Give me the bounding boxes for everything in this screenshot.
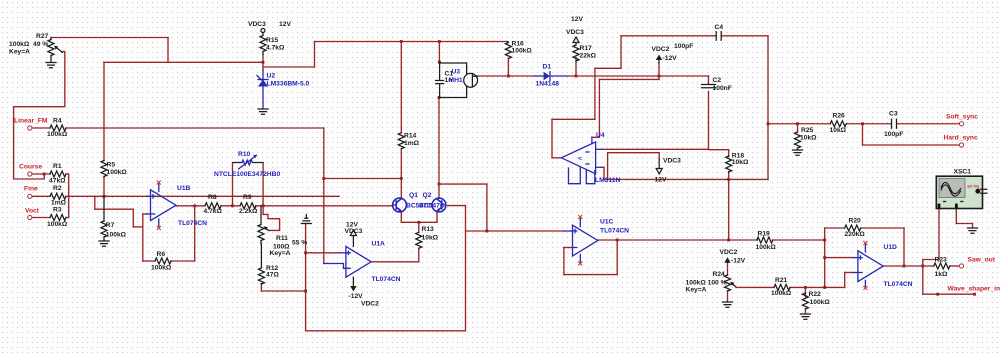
wire R25 top lead (797, 124, 799, 132)
resistor R14 (398, 133, 404, 149)
wire R13 bottom to U1A output (418, 249, 420, 262)
svg-text:U1A: U1A (372, 241, 386, 248)
junction R9/R10/R11 node (262, 204, 265, 207)
svg-text:R19: R19 (758, 230, 771, 237)
svg-text:22kΩ: 22kΩ (580, 52, 597, 59)
node Course (28, 172, 32, 176)
wire R13 top lead (418, 222, 420, 232)
junction C1/U3 top (438, 40, 441, 43)
wire VDC3 12V at U4 (658, 153, 660, 159)
wire R25 bottom to ground (797, 148, 799, 150)
svg-text:100kΩ: 100kΩ (9, 41, 30, 48)
wire Fine stub (32, 195, 50, 197)
svg-text:U3: U3 (452, 69, 461, 76)
svg-text:Key=A: Key=A (686, 287, 707, 294)
op-amp U1D (858, 251, 883, 282)
svg-text:100kΩ 100 %: 100kΩ 100 % (686, 279, 727, 286)
svg-text:Linear_FM: Linear_FM (14, 118, 48, 125)
wire to R14 bottom (324, 178, 402, 180)
wire U1B output to R8 (176, 205, 205, 207)
wire R21/R22 to U1D - (790, 286, 845, 288)
wire R24 bottom to ground (727, 291, 729, 302)
svg-text:R27: R27 (36, 33, 49, 40)
svg-text:NTCLE100E3472HB0: NTCLE100E3472HB0 (214, 171, 280, 178)
wire R18 bottom to U1C output rail (728, 172, 730, 240)
junction R12 node (304, 290, 307, 293)
wire R27 wiper to Course rail (14, 52, 65, 180)
wire R6 right to output (171, 260, 195, 262)
comparator U4 LM311N (561, 142, 595, 174)
svg-text:U1D: U1D (884, 244, 898, 251)
wire R9 output to Q1 base (256, 205, 393, 207)
svg-text:R17: R17 (580, 45, 593, 52)
svg-text:100nF: 100nF (713, 85, 732, 92)
wire 12V rail y=41.5 (315, 41, 508, 43)
wire U1C + input line (466, 230, 564, 232)
resistor R5 (101, 161, 107, 177)
power VDC3 12V at U4 (658, 159, 660, 169)
resistor R7 (103, 196, 105, 221)
wire jog to R18 top (709, 149, 729, 151)
resistor R8 (205, 203, 221, 209)
svg-text:Q1: Q1 (409, 192, 418, 199)
capacitor C1 with U3 frame (436, 63, 467, 98)
transistor Q2 (432, 198, 446, 212)
resistor R6 (155, 258, 171, 264)
svg-text:LM311N: LM311N (595, 177, 620, 184)
resistor R22 (802, 293, 808, 309)
zener U2 LM336BM-5.0 (262, 70, 264, 80)
svg-text:R14: R14 (404, 133, 417, 140)
wire R4 output long line (66, 127, 324, 129)
svg-text:C2: C2 (713, 77, 722, 84)
junction R8/R9/R10 node (231, 204, 234, 207)
wire bus to U1B + input (69, 195, 95, 197)
svg-text:1kΩ: 1kΩ (935, 271, 948, 278)
junction R5/R7 at + line (103, 195, 106, 198)
node Soft_sync (959, 122, 963, 126)
wire R23 to Saw_out (950, 265, 960, 267)
svg-text:Q2: Q2 (423, 192, 432, 199)
svg-text:10kΩ: 10kΩ (732, 159, 749, 166)
node Linear_FM (28, 126, 32, 130)
U4 balance pin staples (569, 167, 595, 184)
op-amp U1C (573, 225, 598, 256)
svg-text:TL074CN: TL074CN (372, 276, 401, 283)
power VDC2 -12V near C4 (656, 55, 662, 61)
svg-text:U1C: U1C (600, 219, 614, 226)
wire scope B to ground (955, 209, 957, 224)
svg-text:-12V: -12V (663, 55, 678, 62)
wire C3 to Soft_sync (897, 123, 960, 125)
svg-text:4.7kΩ: 4.7kΩ (266, 45, 285, 52)
resistor R1 (50, 171, 66, 177)
junction R4/R14 line (322, 177, 325, 180)
svg-text:Hard_sync: Hard_sync (944, 135, 978, 142)
resistor R26 (830, 121, 846, 127)
svg-text:Fine: Fine (24, 186, 38, 193)
wire scope A probe (938, 209, 940, 260)
resistor R21 (774, 284, 790, 290)
wire C1/U3 node down to Q2 collector (438, 98, 440, 199)
svg-text:100kΩ: 100kΩ (106, 231, 127, 238)
wire R20 left lead (825, 227, 845, 229)
wire R15 bottom to U2 (262, 55, 264, 71)
capacitor C4 (716, 32, 721, 41)
junction U1C feedback (616, 239, 619, 242)
svg-text:10kΩ: 10kΩ (800, 135, 817, 142)
wire R10 right riser (262, 163, 264, 206)
svg-text:1mΩ: 1mΩ (51, 199, 67, 206)
wire R14 bottom lead (400, 149, 402, 179)
wire D1 cathode line to C2 (567, 75, 709, 77)
svg-text:100kΩ: 100kΩ (810, 299, 831, 306)
svg-text:10kΩ: 10kΩ (422, 235, 439, 242)
svg-text:100kΩ: 100kΩ (151, 265, 172, 272)
wire C-frame branch riser (486, 184, 488, 231)
wire VDC2 to R24 top (727, 263, 729, 276)
svg-text:R23: R23 (935, 256, 948, 263)
op-amp U1A (346, 246, 371, 277)
wire R14 top lead (400, 42, 402, 133)
junction C1 bottom (438, 96, 441, 99)
svg-text:12V: 12V (279, 21, 291, 28)
junction R13 top (417, 221, 420, 224)
wire R1/R2/R3 output bus (66, 173, 69, 175)
wire R17 bottom lead (575, 58, 577, 77)
capacitor C2 (702, 84, 716, 88)
svg-text:TL074CN: TL074CN (884, 281, 913, 288)
svg-text:U2: U2 (267, 73, 276, 80)
svg-text:R20: R20 (849, 217, 862, 224)
svg-text:VDC3: VDC3 (345, 228, 363, 235)
junction R18 bottom (727, 178, 730, 181)
transistor Q1 (393, 198, 407, 212)
power VDC2 -12V at R24 (724, 257, 730, 263)
wire hysteresis line y=179.4 (604, 178, 768, 180)
svg-text:R3: R3 (53, 207, 62, 214)
svg-text:BC547C: BC547C (419, 203, 445, 210)
svg-text:Saw_out: Saw_out (968, 256, 996, 263)
svg-text:VDC2: VDC2 (652, 46, 670, 53)
wire R10 left riser (232, 163, 234, 206)
wire Hard_sync line (862, 124, 864, 145)
junction R18 rail (727, 239, 730, 242)
svg-text:R4: R4 (53, 118, 62, 125)
node Voct (28, 215, 32, 219)
wire R11 wiper jog (263, 206, 280, 231)
svg-text:100pF: 100pF (884, 131, 903, 138)
ground at R24 (723, 302, 733, 307)
wire U1A output (371, 261, 419, 263)
svg-text:C3: C3 (889, 111, 898, 118)
svg-text:U1B: U1B (177, 185, 191, 192)
power pin x-marks U1B (157, 181, 161, 185)
junction R14 top (400, 40, 403, 43)
svg-text:R26: R26 (833, 113, 846, 120)
resistor R23 (934, 263, 950, 269)
svg-text:100kΩ: 100kΩ (47, 221, 68, 228)
resistor R16 (507, 42, 510, 43)
wire U1C output line (598, 239, 758, 241)
junction scope tap (921, 265, 924, 268)
wire to Wave_shaper_in (922, 266, 924, 294)
node Hard_sync (959, 143, 963, 147)
svg-text:100kΩ: 100kΩ (107, 169, 128, 176)
svg-text:Soft_sync: Soft_sync (946, 114, 978, 121)
junction wave shaper end (973, 293, 976, 296)
svg-text:100kΩ: 100kΩ (512, 47, 533, 54)
resistor R9 (240, 203, 256, 209)
svg-text:VDC3: VDC3 (566, 29, 584, 36)
wire net R27-top to R15/R5 (51, 37, 168, 39)
wire Voct stub (32, 217, 50, 219)
svg-text:100kΩ: 100kΩ (47, 131, 68, 138)
wire to C1/U3 frame (438, 42, 440, 64)
resistor R20 (845, 225, 861, 231)
svg-text:R5: R5 (107, 162, 116, 169)
svg-text:R10: R10 (238, 151, 251, 158)
svg-text:<: < (578, 156, 582, 163)
wire U1B - input feedback riser (143, 213, 147, 215)
junction R14 bottom / Q1 collector (400, 177, 403, 180)
junction R20 at output (903, 265, 906, 268)
potentiometer R11 (260, 206, 262, 225)
resistor R13 (416, 232, 422, 248)
junction Course wire (43, 173, 46, 176)
wire Q1 collector lead (400, 179, 402, 199)
svg-text:R7: R7 (106, 222, 115, 229)
wire to U1A + stub (306, 252, 339, 254)
svg-text:100pF: 100pF (674, 43, 693, 50)
ground inverted above U1A (301, 218, 311, 223)
svg-text:49 %: 49 % (33, 41, 48, 48)
node Fine (28, 194, 32, 198)
resistor R15 (262, 33, 264, 36)
wire ground chain / U1A + node (305, 224, 307, 331)
power VDC3 12V at U1A (352, 236, 354, 247)
wire R24 wiper to R21 (736, 286, 774, 288)
resistor R18 (726, 156, 732, 172)
capacitor C3 (892, 119, 897, 128)
svg-text:-12V: -12V (731, 258, 746, 265)
wire Course stub (32, 173, 50, 175)
wire U4 output loop to C4 (552, 157, 562, 159)
svg-text:Wave_shaper_in: Wave_shaper_in (948, 286, 1000, 293)
resistor R2 (50, 193, 66, 199)
ground at scope B (968, 228, 978, 233)
resistor R19 (757, 237, 773, 243)
junction C-frame branch at U1C+ line (486, 230, 489, 233)
svg-text:C4: C4 (715, 24, 724, 31)
junction sync tap (767, 122, 770, 125)
wire C4 right to hysteresis rail (722, 35, 768, 37)
wire R12 bottom link (261, 290, 305, 292)
ground at R25 (793, 150, 803, 155)
resistor R3 (50, 215, 66, 221)
junction R22 top (804, 286, 807, 289)
svg-text:R22: R22 (809, 291, 822, 298)
svg-text:VDC2: VDC2 (361, 301, 379, 308)
svg-text:D1: D1 (543, 64, 552, 71)
resistor R17 (575, 43, 577, 46)
wire U4 + input jog (602, 166, 605, 168)
wire VDC2 -12V drop to U4 supply (658, 63, 660, 80)
svg-text:2.2kΩ: 2.2kΩ (239, 208, 258, 215)
ground at R27 (46, 63, 56, 68)
junction wave shaper mid (936, 293, 939, 296)
resistor R12 (260, 244, 262, 268)
junction C1 node branch (438, 183, 441, 186)
wire R8-R9 node (221, 205, 240, 207)
svg-text:XSC1: XSC1 (954, 168, 972, 175)
diode D1 1N4148 (535, 75, 544, 77)
wire R20 right loop (861, 227, 904, 229)
svg-text:47Ω: 47Ω (266, 271, 279, 278)
svg-text:Key=A: Key=A (270, 250, 291, 257)
wire R16 bottom lead (507, 59, 509, 77)
svg-text:-12V: -12V (349, 293, 364, 300)
svg-text:47kΩ: 47kΩ (49, 178, 66, 185)
wire Q1 emitter to R13 (400, 212, 402, 223)
resistor R25 (795, 132, 801, 148)
junction R15/U2 node (262, 61, 265, 64)
wire U1C feedback loop (564, 247, 573, 249)
svg-text:R15: R15 (266, 37, 279, 44)
svg-text:R21: R21 (775, 277, 788, 284)
wire sync line from rail (768, 123, 830, 125)
svg-text:R2: R2 (53, 185, 62, 192)
junction U1B output node (193, 204, 196, 207)
wire - input riser (844, 273, 846, 288)
wire R22 bottom to ground (804, 309, 806, 314)
svg-text:10kΩ: 10kΩ (830, 127, 847, 134)
svg-text:Ext Trig: Ext Trig (968, 185, 980, 189)
svg-text:R8: R8 (208, 194, 217, 201)
node Saw_out (959, 264, 963, 268)
svg-text:MH1: MH1 (449, 77, 463, 84)
junction U1A + input (304, 251, 307, 254)
junction R17 bottom (575, 75, 578, 78)
svg-text:R16: R16 (512, 40, 525, 47)
wire R6 left lead (143, 260, 155, 262)
junction U1D + tap (823, 256, 826, 259)
svg-text:VDC3: VDC3 (248, 21, 266, 28)
svg-text:12V: 12V (571, 16, 583, 23)
svg-text:LM336BM-5.0: LM336BM-5.0 (267, 81, 310, 88)
wire U1D output to R23 (883, 265, 934, 267)
power VDC3 12V at R17 (573, 37, 579, 43)
junction VDC2 crossing (658, 75, 661, 78)
svg-text:TL074CN: TL074CN (600, 227, 629, 234)
ground at R22 (800, 314, 810, 319)
svg-text:VDC3: VDC3 (663, 157, 681, 164)
svg-text:Course: Course (19, 164, 42, 171)
thermistor R10 (233, 162, 243, 164)
junction R19/U1D node (823, 239, 826, 242)
svg-text:R24: R24 (713, 271, 726, 278)
junction riser bottom (823, 286, 826, 289)
power pin x-marks U1C (578, 215, 582, 219)
svg-text:4.7kΩ: 4.7kΩ (204, 208, 223, 215)
wire U3 gate to R16/D1 (478, 75, 535, 77)
ground at R7 (99, 241, 109, 246)
svg-text:TL074CN: TL074CN (178, 220, 207, 227)
svg-text:Key=A: Key=A (9, 49, 30, 56)
svg-text:R9: R9 (243, 194, 252, 201)
wire jog to 12V rail riser (263, 66, 315, 68)
potentiometer R27 (50, 38, 52, 40)
resistor R4 (50, 125, 66, 131)
svg-text:R11: R11 (276, 235, 288, 242)
svg-text:220kΩ: 220kΩ (845, 231, 866, 238)
wire C2 top lead (708, 76, 710, 84)
node VDC3 terminal at R15 (261, 29, 265, 33)
potentiometer R24 (725, 275, 731, 291)
svg-text:Voct: Voct (25, 208, 40, 215)
wire bottom loop to Q2 base net (306, 330, 466, 332)
svg-text:R13: R13 (422, 226, 435, 233)
transistor U3 symbol (464, 73, 478, 87)
svg-text:1mΩ: 1mΩ (404, 140, 420, 147)
power VDC2 -12V at U1A (352, 277, 354, 286)
junction R16 bottom (507, 75, 510, 78)
ground at U2 (258, 109, 268, 114)
junction R25 top (796, 122, 799, 125)
wire R22 top lead (804, 287, 806, 297)
wire Linear_FM stub to R4 (32, 127, 50, 129)
op-amp U1B (151, 190, 177, 221)
svg-text:1N4148: 1N4148 (536, 81, 560, 88)
svg-text:R25: R25 (801, 127, 814, 134)
wire Q2 base red lead (448, 205, 466, 207)
power pin x-marks U1D (863, 241, 867, 245)
wire U1D input node riser (824, 228, 826, 287)
junction Hard_sync tap (861, 122, 864, 125)
svg-text:100kΩ: 100kΩ (771, 290, 792, 297)
wire summing line to + input y=196.3 (95, 195, 339, 197)
svg-text:R6: R6 (157, 251, 166, 258)
svg-text:100kΩ: 100kΩ (756, 244, 777, 251)
svg-text:VDC2: VDC2 (720, 249, 738, 256)
wire U4 - input line to C2 bottom (602, 148, 709, 150)
svg-text:U4: U4 (596, 132, 605, 139)
wire R19 to U1D node (773, 239, 825, 241)
wire R26 to C3 (846, 123, 891, 125)
svg-text:12V: 12V (655, 177, 667, 184)
wire U1D + input line (825, 257, 853, 259)
svg-text:R1: R1 (53, 163, 62, 170)
wire R4 line riser to U1A - (323, 128, 325, 264)
svg-text:55 %: 55 % (292, 240, 307, 247)
